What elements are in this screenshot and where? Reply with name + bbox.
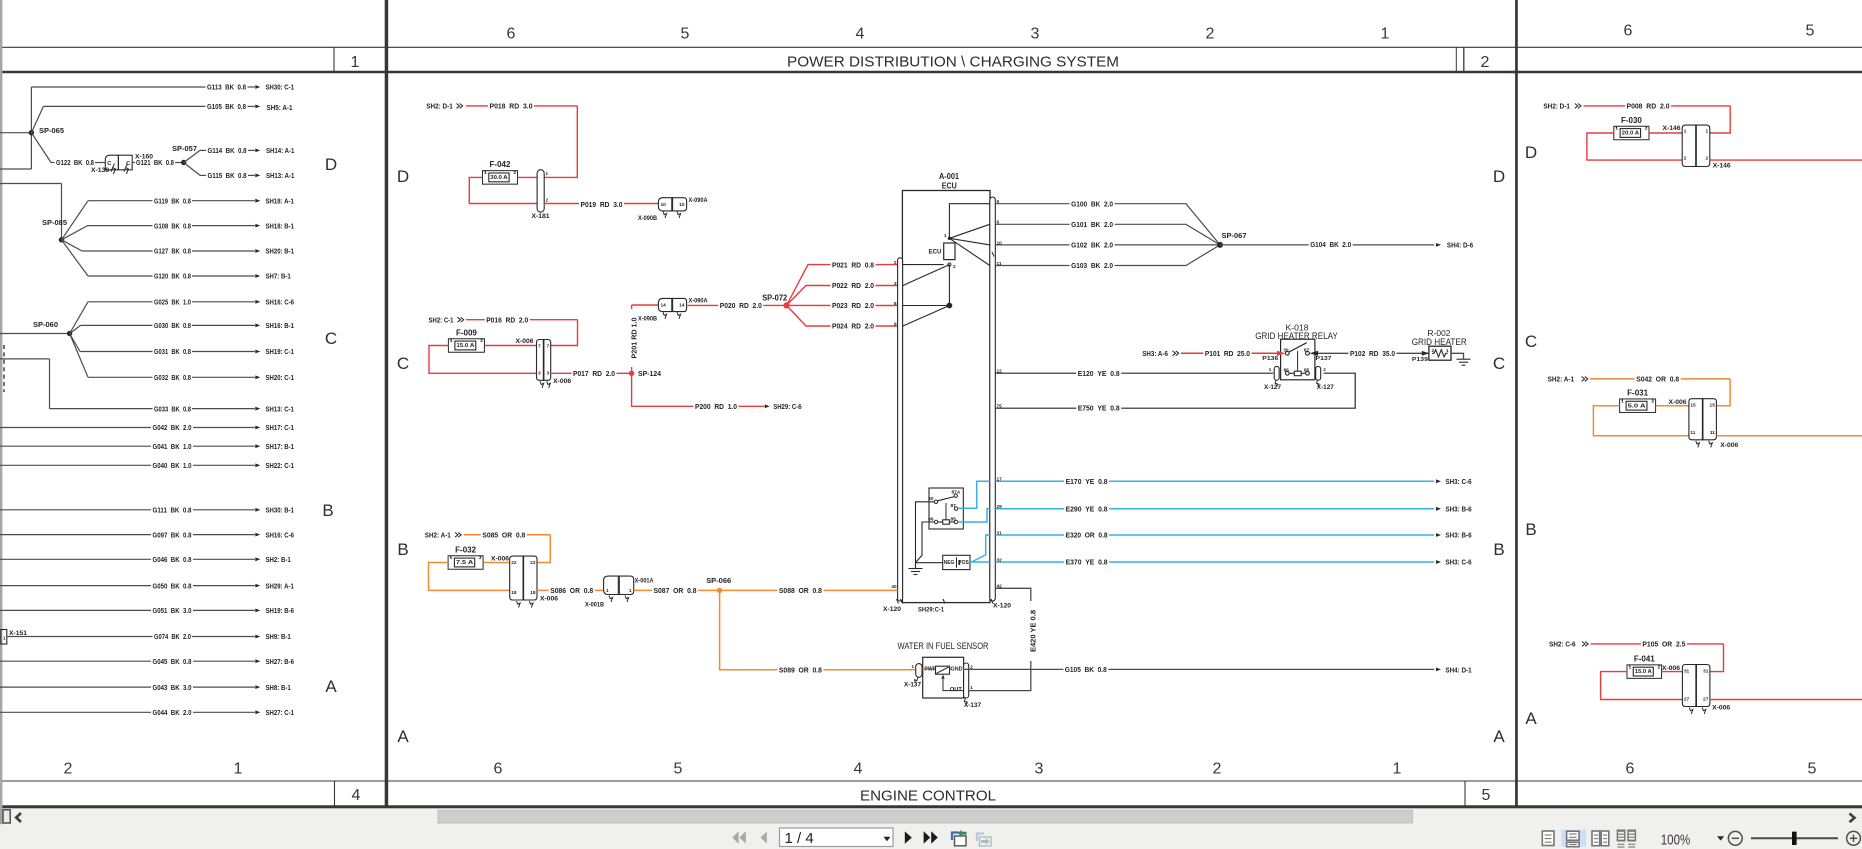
svg-text:6: 6 bbox=[1626, 761, 1635, 778]
svg-text:1: 1 bbox=[234, 761, 243, 778]
svg-text:7: 7 bbox=[538, 343, 541, 349]
svg-text:15: 15 bbox=[1710, 403, 1716, 409]
svg-text:OUT: OUT bbox=[950, 687, 963, 693]
wire G045 bbox=[0, 660, 151, 662]
wire G040 bbox=[0, 464, 151, 466]
svg-text:S089 OR 0.8: S089 OR 0.8 bbox=[779, 665, 822, 674]
svg-text:100%: 100% bbox=[1661, 832, 1691, 849]
wire G127 bbox=[62, 240, 83, 251]
svg-text:G074 BK 2.0: G074 BK 2.0 bbox=[154, 632, 191, 641]
svg-text:SH3: B-6: SH3: B-6 bbox=[1445, 505, 1471, 514]
wire G043 bbox=[0, 686, 151, 688]
svg-text:E120 YE 0.8: E120 YE 0.8 bbox=[1078, 369, 1120, 378]
svg-text:G041 BK 1.0: G041 BK 1.0 bbox=[153, 442, 192, 451]
svg-text:P021 RD 0.8: P021 RD 0.8 bbox=[832, 260, 874, 269]
wire P200 RD 1.0 bbox=[632, 373, 764, 406]
svg-text:SH5: A-1: SH5: A-1 bbox=[267, 103, 293, 112]
svg-text:G050 BK 0.8: G050 BK 0.8 bbox=[153, 581, 192, 590]
svg-text:15: 15 bbox=[1690, 403, 1696, 409]
svg-text:3: 3 bbox=[538, 371, 541, 377]
svg-text:G044 BK 2.0: G044 BK 2.0 bbox=[153, 708, 192, 717]
svg-text:P139: P139 bbox=[1412, 357, 1428, 363]
svg-text:P023 RD 2.0: P023 RD 2.0 bbox=[832, 301, 874, 310]
svg-text:G103 BK 2.0: G103 BK 2.0 bbox=[1071, 261, 1113, 270]
svg-text:SH20: B-1: SH20: B-1 bbox=[266, 247, 294, 256]
svg-text:F-031: F-031 bbox=[1627, 389, 1648, 398]
svg-text:F-032: F-032 bbox=[455, 545, 476, 554]
svg-text:G030 BK 0.8: G030 BK 0.8 bbox=[154, 321, 191, 330]
svg-text:X-127: X-127 bbox=[1317, 385, 1335, 391]
wire node to pin8 bbox=[903, 305, 950, 307]
wire bundle marks at sheet edge bbox=[3, 345, 5, 392]
svg-text:1: 1 bbox=[1269, 367, 1272, 372]
svg-text:14: 14 bbox=[661, 303, 667, 309]
ECU internal block bbox=[944, 243, 955, 260]
svg-text:5: 5 bbox=[1808, 761, 1817, 778]
svg-text:4: 4 bbox=[352, 787, 361, 804]
ground for R-002 bbox=[1451, 353, 1464, 359]
svg-text:X-090B: X-090B bbox=[638, 317, 658, 323]
wire E370 to battery POS bbox=[970, 561, 990, 563]
svg-text:SP-066: SP-066 bbox=[706, 576, 731, 585]
svg-text:C: C bbox=[1525, 332, 1537, 351]
svg-text:SP-067: SP-067 bbox=[1222, 231, 1247, 240]
svg-text:G115 BK 0.8: G115 BK 0.8 bbox=[208, 171, 247, 180]
svg-text:4: 4 bbox=[854, 761, 863, 778]
svg-text:X-090A: X-090A bbox=[689, 299, 709, 305]
svg-text:D: D bbox=[397, 167, 409, 186]
wire P023 RD 2.0 bbox=[787, 304, 898, 306]
svg-text:1: 1 bbox=[944, 233, 947, 239]
svg-text:X-006: X-006 bbox=[553, 379, 572, 385]
svg-text:P017 RD 2.0: P017 RD 2.0 bbox=[573, 369, 615, 378]
svg-text:15.0 A: 15.0 A bbox=[456, 343, 474, 349]
svg-text:SH2: B-1: SH2: B-1 bbox=[266, 555, 291, 564]
svg-text:P102 RD 35.0: P102 RD 35.0 bbox=[1350, 349, 1395, 358]
connector X-006 (F-009) bbox=[537, 340, 544, 381]
wire S042 OR 0.8 bbox=[1590, 378, 1730, 380]
svg-text:G104 BK 2.0: G104 BK 2.0 bbox=[1310, 240, 1351, 249]
svg-text:SH29: C-6: SH29: C-6 bbox=[773, 402, 801, 411]
wire P105 OR 2.5 bbox=[1591, 643, 1724, 645]
svg-text:30.0 A: 30.0 A bbox=[490, 175, 508, 181]
svg-text:G097 BK 0.8: G097 BK 0.8 bbox=[153, 530, 192, 539]
svg-text:C: C bbox=[1493, 354, 1505, 373]
svg-text:G032 BK 0.8: G032 BK 0.8 bbox=[154, 373, 191, 382]
svg-text:3: 3 bbox=[894, 281, 897, 287]
svg-text:1: 1 bbox=[546, 171, 549, 176]
svg-text:5.0 A: 5.0 A bbox=[1628, 403, 1646, 409]
sensor element bbox=[936, 666, 950, 674]
svg-text:SH13: C-1: SH13: C-1 bbox=[266, 404, 294, 413]
svg-text:X-137: X-137 bbox=[964, 703, 982, 709]
svg-text:G121 BK 0.8: G121 BK 0.8 bbox=[136, 158, 174, 167]
svg-text:G127 BK 0.8: G127 BK 0.8 bbox=[154, 247, 191, 256]
wire G030 bbox=[70, 325, 81, 333]
svg-text:SH2: A-1: SH2: A-1 bbox=[425, 531, 451, 540]
wire ECU pin1 to pin11 bbox=[949, 238, 989, 265]
svg-text:G046 BK 0.8: G046 BK 0.8 bbox=[153, 555, 192, 564]
svg-text:2: 2 bbox=[64, 761, 73, 778]
svg-text:A: A bbox=[1525, 709, 1537, 728]
wire P020 RD 2.0 bbox=[688, 304, 787, 306]
svg-text:SH18: B-1: SH18: B-1 bbox=[266, 221, 294, 230]
internal ground bbox=[916, 502, 943, 563]
svg-text:SH2: D-1: SH2: D-1 bbox=[1543, 102, 1570, 111]
svg-text:B: B bbox=[322, 501, 333, 520]
wire P017 RD 2.0 bbox=[551, 372, 629, 374]
svg-text:D: D bbox=[1493, 167, 1505, 186]
svg-text:X-006: X-006 bbox=[516, 339, 535, 345]
svg-text:E290 YE 0.8: E290 YE 0.8 bbox=[1066, 505, 1108, 514]
svg-text:NEG: NEG bbox=[944, 560, 955, 566]
svg-text:G119 BK 0.8: G119 BK 0.8 bbox=[154, 196, 191, 205]
svg-text:PWR: PWR bbox=[924, 667, 936, 673]
svg-text:B: B bbox=[1493, 540, 1504, 559]
svg-text:15.0 A: 15.0 A bbox=[1635, 669, 1652, 675]
svg-text:11: 11 bbox=[1710, 430, 1715, 436]
wire G121 bbox=[132, 162, 136, 164]
svg-text:SH14: A-1: SH14: A-1 bbox=[266, 146, 294, 155]
svg-text:X-006: X-006 bbox=[491, 557, 510, 563]
svg-text:SP-057: SP-057 bbox=[172, 144, 197, 153]
svg-text:SP-124: SP-124 bbox=[638, 369, 662, 378]
svg-text:C: C bbox=[107, 161, 111, 167]
svg-text:14: 14 bbox=[679, 303, 685, 309]
svg-text:SH19: B-6: SH19: B-6 bbox=[266, 606, 294, 615]
wire G108 bbox=[62, 226, 88, 240]
svg-text:10: 10 bbox=[661, 202, 667, 208]
wire G111 bbox=[0, 509, 151, 511]
wire ECU pin2 to pin3 bbox=[903, 265, 950, 286]
wire P018 RD 3.0 bbox=[466, 105, 577, 107]
wire E420 YE 0.8 bbox=[969, 588, 1031, 690]
svg-text:POWER DISTRIBUTION \ CHARGING: POWER DISTRIBUTION \ CHARGING SYSTEM bbox=[787, 53, 1119, 70]
svg-text:SH30: B-1: SH30: B-1 bbox=[266, 506, 294, 515]
connector X-006 (F-031) bbox=[1689, 399, 1703, 440]
wire S086 OR 0.8 bbox=[537, 589, 604, 591]
svg-text:2: 2 bbox=[1432, 348, 1435, 353]
wire P016 RD 2.0 bbox=[466, 319, 578, 321]
wire P008 RD 2.0 bbox=[1584, 105, 1731, 107]
wire P019 RD 3.0 bbox=[544, 203, 658, 205]
svg-text:A: A bbox=[325, 677, 337, 696]
wire G025 bbox=[70, 302, 88, 334]
svg-text:P136: P136 bbox=[1262, 356, 1278, 362]
svg-text:P105 OR 2.5: P105 OR 2.5 bbox=[1642, 640, 1685, 649]
connector X-146 bbox=[1682, 125, 1696, 166]
svg-text:1: 1 bbox=[3, 636, 6, 641]
svg-text:2: 2 bbox=[970, 664, 973, 669]
splice SP-067 bbox=[1217, 242, 1223, 248]
svg-text:18: 18 bbox=[511, 590, 517, 596]
wire G120 bbox=[62, 240, 89, 276]
svg-text:1: 1 bbox=[351, 54, 360, 71]
svg-text:1: 1 bbox=[970, 685, 973, 690]
svg-text:G040 BK 1.0: G040 BK 1.0 bbox=[153, 461, 192, 470]
svg-text:SH20: C-1: SH20: C-1 bbox=[266, 373, 294, 382]
svg-text:ECU: ECU bbox=[929, 248, 942, 255]
splice SP-072 bbox=[783, 302, 789, 308]
wire E170 to relay 87 bbox=[958, 481, 990, 508]
splice SP-065 bbox=[0, 132, 31, 134]
svg-text:3: 3 bbox=[1031, 26, 1040, 43]
relay K-018 coil bbox=[1294, 371, 1301, 376]
wire G103 BK 2.0 bbox=[995, 245, 1220, 266]
connector X-181 bbox=[537, 170, 544, 213]
svg-text:SH8: B-1: SH8: B-1 bbox=[266, 683, 291, 692]
wire ECU pin1 to pin6 bbox=[949, 224, 989, 238]
junction node bbox=[948, 265, 950, 306]
svg-text:G100 BK 2.0: G100 BK 2.0 bbox=[1071, 199, 1113, 208]
svg-text:30: 30 bbox=[1283, 348, 1289, 354]
svg-text:1: 1 bbox=[1621, 398, 1624, 403]
svg-text:G111 BK 0.8: G111 BK 0.8 bbox=[153, 506, 192, 515]
svg-text:SH3: B-6: SH3: B-6 bbox=[1445, 531, 1471, 540]
svg-text:86: 86 bbox=[1284, 368, 1290, 374]
svg-text:A-001: A-001 bbox=[939, 172, 960, 181]
svg-text:GRID HEATER RELAY: GRID HEATER RELAY bbox=[1255, 331, 1338, 342]
wire P101 RD 25.0 bbox=[1181, 352, 1283, 354]
connector X-006 (F-032) bbox=[510, 556, 524, 600]
svg-text:1: 1 bbox=[450, 338, 453, 343]
svg-text:P020 RD 2.0: P020 RD 2.0 bbox=[720, 301, 762, 310]
svg-text:18: 18 bbox=[530, 590, 536, 596]
wire G097 bbox=[0, 534, 151, 536]
svg-text:B: B bbox=[397, 540, 408, 559]
wire G105 bbox=[31, 106, 43, 132]
svg-text:E420 YE 0.8: E420 YE 0.8 bbox=[1029, 610, 1038, 652]
svg-text:ENGINE CONTROL: ENGINE CONTROL bbox=[860, 787, 996, 804]
svg-text:WATER IN FUEL SENSOR: WATER IN FUEL SENSOR bbox=[898, 641, 989, 652]
svg-text:S086 OR 0.8: S086 OR 0.8 bbox=[550, 586, 593, 595]
wire ECU pin2 to pin2 bbox=[903, 264, 944, 266]
svg-text:X-001A: X-001A bbox=[635, 579, 655, 585]
svg-text:SH4: D-6: SH4: D-6 bbox=[1447, 240, 1473, 249]
svg-text:G102 BK 2.0: G102 BK 2.0 bbox=[1071, 241, 1113, 250]
svg-text:X-127: X-127 bbox=[1264, 385, 1282, 391]
svg-text:SH13: A-1: SH13: A-1 bbox=[266, 171, 294, 180]
connector X-127 right bbox=[1316, 366, 1321, 380]
svg-text:1: 1 bbox=[1615, 126, 1618, 131]
svg-text:X-146: X-146 bbox=[1663, 126, 1682, 132]
svg-text:X-090B: X-090B bbox=[638, 216, 658, 222]
wire S085 OR 0.8 bbox=[464, 534, 551, 536]
svg-text:1: 1 bbox=[629, 588, 632, 594]
svg-text:G042 BK 2.0: G042 BK 2.0 bbox=[153, 423, 192, 432]
svg-text:6: 6 bbox=[1624, 23, 1633, 40]
svg-text:SH2: A-1: SH2: A-1 bbox=[1548, 375, 1575, 384]
wire P022 RD 2.0 bbox=[787, 286, 898, 306]
wire G113 bbox=[31, 86, 205, 88]
svg-text:1: 1 bbox=[1684, 129, 1687, 135]
svg-text:G120 BK 0.8: G120 BK 0.8 bbox=[154, 272, 191, 281]
svg-text:40: 40 bbox=[891, 584, 897, 590]
svg-text:SH16: C-6: SH16: C-6 bbox=[266, 298, 294, 307]
wire G102 BK 2.0 bbox=[995, 244, 1220, 246]
svg-text:SP-085: SP-085 bbox=[42, 218, 67, 227]
svg-text:A: A bbox=[1493, 727, 1505, 746]
svg-text:1: 1 bbox=[1381, 26, 1390, 43]
svg-text:31: 31 bbox=[1684, 668, 1690, 674]
connector X-127 left bbox=[1274, 366, 1279, 380]
svg-text:10: 10 bbox=[679, 202, 685, 208]
svg-text:G051 BK 3.0: G051 BK 3.0 bbox=[153, 606, 192, 615]
svg-text:SH29: A-1: SH29: A-1 bbox=[266, 581, 294, 590]
svg-text:3: 3 bbox=[1035, 761, 1044, 778]
svg-text:X-006: X-006 bbox=[1712, 705, 1731, 711]
wire E170 YE 0.8 bbox=[995, 480, 1434, 482]
svg-text:1: 1 bbox=[1446, 348, 1449, 353]
svg-text:2: 2 bbox=[546, 198, 549, 203]
wire G050 bbox=[0, 585, 151, 587]
svg-text:B: B bbox=[1525, 520, 1536, 539]
wire P008 out bbox=[1710, 159, 1862, 161]
wire P201 RD 1.0 bbox=[631, 305, 633, 373]
svg-text:2: 2 bbox=[894, 260, 897, 266]
svg-text:P201 RD 1.0: P201 RD 1.0 bbox=[630, 318, 639, 359]
connector X-151 bbox=[1, 630, 7, 645]
svg-text:31: 31 bbox=[1703, 668, 1709, 674]
svg-text:3: 3 bbox=[547, 371, 550, 377]
wire P105 out bbox=[1710, 699, 1862, 701]
wire E370 YE 0.8 bbox=[995, 561, 1434, 563]
svg-text:SH3: C-6: SH3: C-6 bbox=[1445, 558, 1471, 567]
svg-text:G045 BK 0.8: G045 BK 0.8 bbox=[153, 657, 192, 666]
svg-text:C: C bbox=[325, 329, 337, 348]
svg-text:P022 RD 2.0: P022 RD 2.0 bbox=[832, 281, 874, 290]
svg-text:SP-072: SP-072 bbox=[762, 293, 788, 302]
svg-text:S085 OR 0.8: S085 OR 0.8 bbox=[482, 531, 525, 540]
wire G122 bbox=[31, 133, 51, 163]
svg-text:2: 2 bbox=[1323, 367, 1326, 372]
wire G031 bbox=[70, 334, 80, 352]
svg-text:S087 OR 0.8: S087 OR 0.8 bbox=[654, 586, 697, 595]
svg-text:SH2: D-1: SH2: D-1 bbox=[426, 102, 453, 111]
svg-text:G122 BK 0.8: G122 BK 0.8 bbox=[56, 158, 94, 167]
wire P102 RD 35.0 bbox=[1312, 352, 1428, 354]
svg-text:P024 RD 2.0: P024 RD 2.0 bbox=[832, 322, 874, 331]
svg-text:5: 5 bbox=[674, 761, 683, 778]
svg-text:E370 YE 0.8: E370 YE 0.8 bbox=[1066, 558, 1108, 567]
wire ECU pin1 to pin5 bbox=[949, 204, 989, 239]
svg-text:GND: GND bbox=[951, 667, 963, 673]
svg-text:6: 6 bbox=[494, 761, 503, 778]
svg-text:1: 1 bbox=[450, 555, 453, 560]
wire E320 OR 0.8 bbox=[995, 534, 1434, 536]
wire S042 out bbox=[1716, 435, 1862, 437]
svg-text:P016 RD 2.0: P016 RD 2.0 bbox=[486, 315, 528, 324]
svg-text:2: 2 bbox=[953, 264, 956, 270]
svg-text:SH16: B-1: SH16: B-1 bbox=[266, 321, 294, 330]
svg-text:1: 1 bbox=[911, 664, 914, 669]
svg-text:SP-065: SP-065 bbox=[39, 126, 64, 135]
svg-text:SH18: A-1: SH18: A-1 bbox=[266, 196, 294, 205]
svg-text:SH17: C-1: SH17: C-1 bbox=[266, 423, 294, 432]
svg-text:2: 2 bbox=[1684, 156, 1687, 162]
svg-text:G105 BK 0.8: G105 BK 0.8 bbox=[207, 102, 246, 111]
svg-text:SH30: C-1: SH30: C-1 bbox=[266, 83, 294, 92]
svg-text:SH27: C-1: SH27: C-1 bbox=[266, 708, 294, 717]
svg-text:P101 RD 25.0: P101 RD 25.0 bbox=[1205, 349, 1250, 358]
svg-text:G031 BK 0.8: G031 BK 0.8 bbox=[154, 347, 191, 356]
wire node to pin9 bbox=[903, 306, 950, 327]
svg-text:A: A bbox=[397, 727, 409, 746]
connector X-137 right bbox=[964, 663, 969, 698]
svg-text:5: 5 bbox=[1482, 787, 1491, 804]
connector X-138 / X-160 bbox=[105, 155, 118, 170]
svg-text:87A: 87A bbox=[952, 490, 961, 496]
wire G104 BK 2.0 bbox=[1220, 244, 1434, 246]
svg-text:2: 2 bbox=[1706, 156, 1709, 162]
svg-text:E170 YE 0.8: E170 YE 0.8 bbox=[1066, 477, 1108, 486]
svg-text:G108 BK 0.8: G108 BK 0.8 bbox=[154, 221, 191, 230]
wire G101 BK 2.0 bbox=[995, 224, 1220, 245]
svg-text:1 / 4: 1 / 4 bbox=[785, 830, 814, 847]
svg-text:X-006: X-006 bbox=[540, 596, 559, 602]
svg-text:SH16: C-6: SH16: C-6 bbox=[266, 530, 294, 539]
svg-text:SH2: C-6: SH2: C-6 bbox=[1549, 640, 1576, 649]
svg-text:D: D bbox=[1525, 143, 1537, 162]
svg-text:85: 85 bbox=[1304, 368, 1310, 374]
svg-text:5: 5 bbox=[1806, 23, 1815, 40]
svg-text:7.5 A: 7.5 A bbox=[456, 560, 474, 566]
svg-text:X-001B: X-001B bbox=[585, 602, 605, 608]
svg-text:P200 RD 1.0: P200 RD 1.0 bbox=[695, 402, 737, 411]
svg-text:SH29:C-1: SH29:C-1 bbox=[918, 608, 945, 614]
svg-text:F-009: F-009 bbox=[456, 328, 477, 337]
svg-text:SH3: A-6: SH3: A-6 bbox=[1142, 349, 1168, 358]
wire E750 YE 0.8 bbox=[995, 373, 1355, 408]
svg-text:ECU: ECU bbox=[942, 182, 957, 191]
svg-text:X-120: X-120 bbox=[883, 607, 902, 613]
svg-text:G025 BK 1.0: G025 BK 1.0 bbox=[154, 298, 191, 307]
svg-text:X-120: X-120 bbox=[993, 604, 1012, 610]
splice SP-066 bbox=[717, 588, 722, 593]
connector X-137 left bbox=[916, 664, 922, 678]
svg-text:X-181: X-181 bbox=[532, 214, 551, 220]
svg-text:S042 OR 0.8: S042 OR 0.8 bbox=[1636, 375, 1679, 384]
wire G046 bbox=[0, 558, 151, 560]
svg-text:SH27: B-6: SH27: B-6 bbox=[266, 657, 294, 666]
svg-text:P008 RD 2.0: P008 RD 2.0 bbox=[1627, 102, 1670, 111]
connector X-001B / X-001A bbox=[604, 576, 619, 594]
svg-text:P137: P137 bbox=[1316, 356, 1332, 362]
wire G044 bbox=[0, 711, 151, 713]
wire G074 bbox=[7, 636, 153, 638]
svg-text:87: 87 bbox=[1304, 348, 1310, 354]
relay coil bbox=[943, 520, 950, 524]
svg-text:G105 BK 0.8: G105 BK 0.8 bbox=[1065, 665, 1107, 674]
splice SP-124 bbox=[629, 371, 634, 376]
svg-text:G114 BK 0.8: G114 BK 0.8 bbox=[208, 146, 247, 155]
wire E290 to relay 85 bbox=[958, 509, 990, 522]
svg-text:F-030: F-030 bbox=[1621, 116, 1642, 125]
svg-text:87: 87 bbox=[951, 503, 957, 509]
viewer chrome bbox=[0, 808, 1862, 849]
wire S089 OR 0.8 bbox=[720, 590, 915, 669]
wire G105 BK 0.8 (sensor gnd) bbox=[950, 668, 1435, 670]
svg-text:X-146: X-146 bbox=[1713, 164, 1732, 170]
svg-text:SH7: B-1: SH7: B-1 bbox=[266, 272, 291, 281]
wire G032 bbox=[70, 334, 88, 378]
svg-text:6: 6 bbox=[507, 26, 516, 43]
svg-text:SH22: C-1: SH22: C-1 bbox=[266, 461, 294, 470]
svg-text:5: 5 bbox=[681, 26, 690, 43]
svg-text:G113 BK 0.8: G113 BK 0.8 bbox=[207, 83, 246, 92]
splice SP-060 bbox=[0, 333, 70, 335]
svg-text:4: 4 bbox=[856, 26, 865, 43]
